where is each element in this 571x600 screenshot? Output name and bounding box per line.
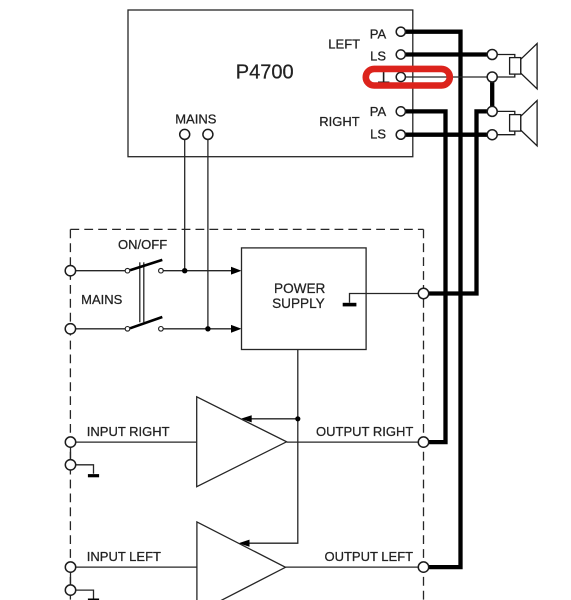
svg-text:INPUT RIGHT: INPUT RIGHT	[87, 424, 170, 439]
svg-text:OUTPUT LEFT: OUTPUT LEFT	[324, 549, 413, 564]
svg-text:MAINS: MAINS	[175, 111, 217, 126]
svg-text:OUTPUT RIGHT: OUTPUT RIGHT	[316, 424, 413, 439]
svg-text:INPUT LEFT: INPUT LEFT	[87, 549, 161, 564]
svg-text:PA: PA	[370, 104, 387, 119]
svg-text:SUPPLY: SUPPLY	[272, 296, 325, 311]
svg-text:PA: PA	[370, 26, 387, 41]
svg-text:LS: LS	[370, 127, 386, 142]
svg-text:MAINS: MAINS	[81, 292, 123, 307]
svg-text:RIGHT: RIGHT	[319, 114, 360, 129]
svg-text:LS: LS	[370, 48, 386, 63]
svg-text:LEFT: LEFT	[328, 37, 360, 52]
svg-text:POWER: POWER	[274, 281, 326, 296]
svg-text:ON/OFF: ON/OFF	[118, 237, 167, 252]
svg-text:P4700: P4700	[236, 61, 294, 83]
